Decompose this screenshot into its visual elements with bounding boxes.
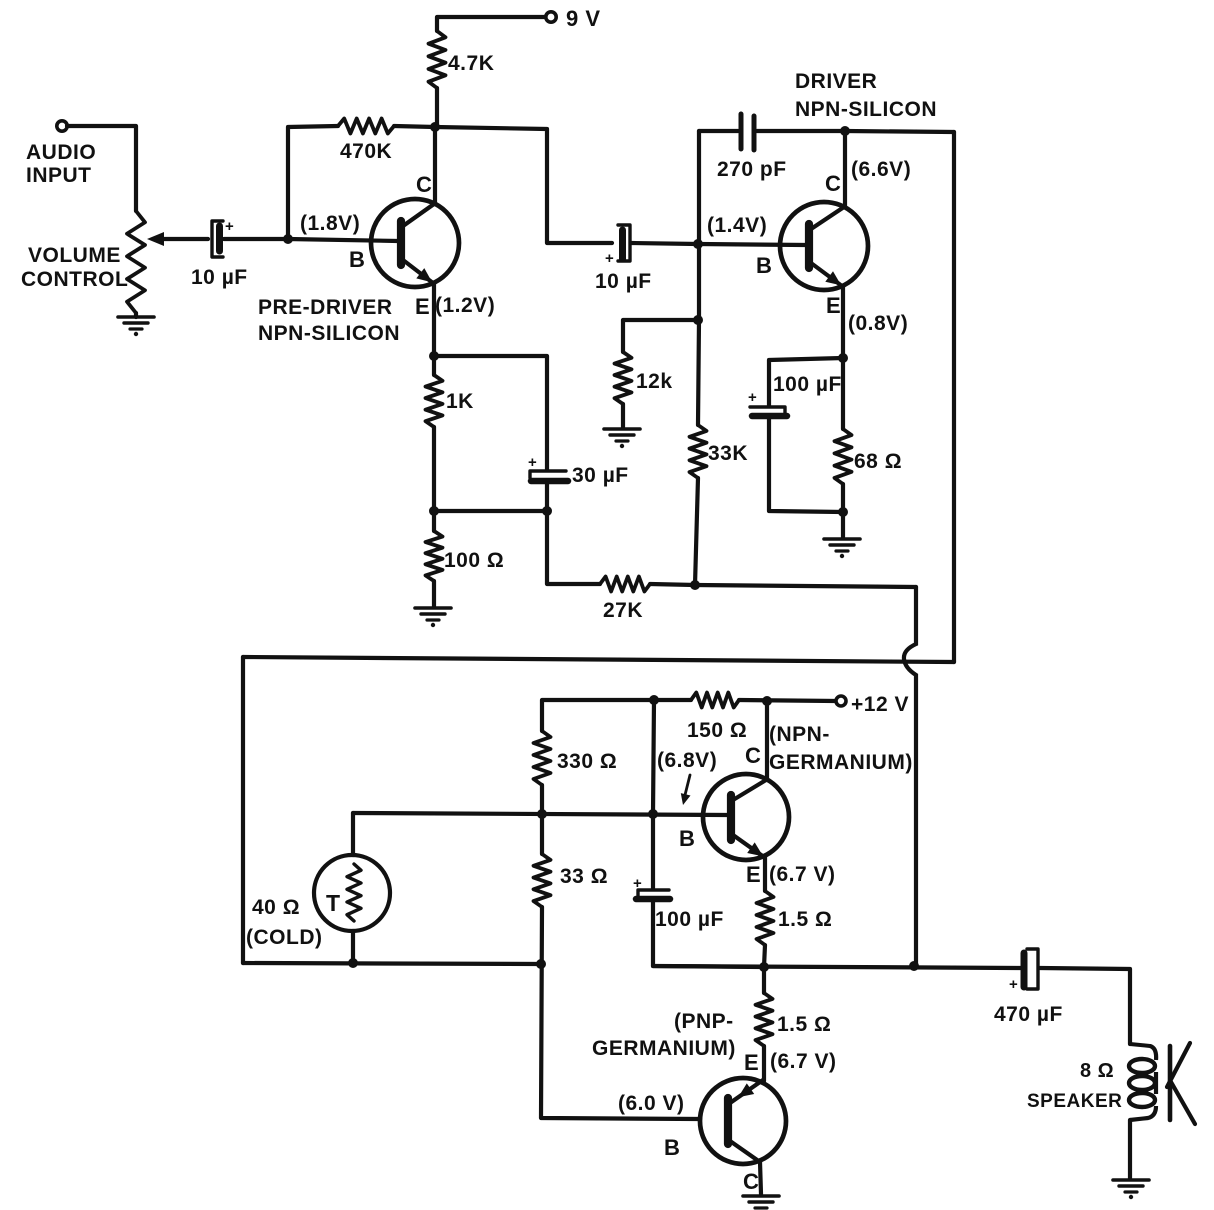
wire C6 to output rail [653,902,763,967]
wire to 100uF bypass [769,358,843,406]
svg-text:(COLD): (COLD) [246,926,322,949]
wire 33K to 27K node [695,478,698,585]
speaker cone symbol [1168,1046,1173,1120]
svg-text:100 Ω: 100 Ω [444,549,504,572]
svg-text:NPN-SILICON: NPN-SILICON [258,322,400,345]
svg-text:GERMANIUM): GERMANIUM) [592,1037,736,1060]
capacitor C6 100uF (bootstrap) [638,890,669,898]
svg-text:PRE-DRIVER: PRE-DRIVER [258,296,393,319]
svg-text:330 Ω: 330 Ω [557,750,617,773]
wire 30uF node down to 27K [547,511,600,584]
Q4 collector wire to ground [760,1162,761,1194]
svg-text:1.5 Ω: 1.5 Ω [777,1013,831,1036]
9V supply terminal [546,12,556,22]
ground under Q4 collector [743,1194,779,1198]
node driver collector junction [840,126,850,136]
svg-text:(6.6V): (6.6V) [851,158,911,181]
wire driver base node up to 270pF [697,131,701,244]
resistor 1.5 ohm upper [757,891,774,945]
wire Q1 emitter to 30uF [434,356,547,470]
node 150ohm left junction [649,695,659,705]
wire feedback vertical with hop over output-stage wire [904,587,916,964]
svg-text:C: C [743,1169,759,1194]
svg-text:DRIVER: DRIVER [795,70,877,93]
wire lower junction left to emitter chain [434,509,547,513]
svg-text:27K: 27K [603,599,643,622]
resistor 470K [338,119,394,134]
svg-text:33 Ω: 33 Ω [560,865,608,888]
svg-text:B: B [349,247,365,272]
svg-text:4.7K: 4.7K [448,52,494,75]
svg-text:SPEAKER: SPEAKER [1027,1091,1122,1112]
svg-text:12k: 12k [636,370,673,393]
wire output-stage top edge [243,657,954,662]
potentiometer volume control [127,211,145,313]
wire base rail to thermistor [351,813,355,855]
resistor 33K [698,320,699,425]
Q2 collector wire [843,131,847,207]
resistor 12k [615,352,632,404]
svg-text:9 V: 9 V [566,6,601,31]
wire driver collector node to right rail [845,131,954,132]
resistor 4.7K [429,31,446,88]
wire 150 ohm to +12V terminal [739,700,836,701]
svg-text:+: + [633,875,642,892]
wire 30uF to lower junction [545,484,549,511]
thermistor T 40 ohm [314,855,390,931]
wire 4.7K to collector node [435,88,439,127]
svg-text:10 µF: 10 µF [191,266,248,289]
wire 270pF left lead [699,129,738,133]
resistor 1K [432,356,436,375]
ground under 12k [604,427,640,431]
svg-text:B: B [664,1135,680,1160]
wire 27K to 33K node [650,584,695,585]
node 150ohm right junction [762,696,772,706]
resistor 68 ohm [841,358,845,429]
wire driver base node to Q2 base [698,244,806,245]
transistor Q3 NPN-GERMANIUM [703,774,789,860]
wire collector node right then down to 10uF C2 [435,127,612,243]
svg-text:470K: 470K [340,140,392,163]
wire 1K to 100ohm [432,427,436,511]
svg-text:33K: 33K [708,442,748,465]
svg-text:8 Ω: 8 Ω [1080,1060,1114,1082]
svg-text:E: E [744,1050,759,1075]
svg-text:+: + [605,250,614,267]
resistor 33 ohm [540,814,544,854]
svg-text:100 µF: 100 µF [773,373,842,396]
wire 1.5 ohm upper to output rail [764,945,765,967]
wire thermistor to output rail [351,931,355,963]
speaker voice coil [1130,1044,1150,1046]
Q3 emitter wire [763,857,767,891]
wire driver base node down to 12k junction [697,244,701,320]
capacitor C3 270pF [739,114,744,149]
svg-text:B: B [679,826,695,851]
svg-text:E: E [415,294,430,319]
node pre-driver collector junction [430,122,440,132]
node Q1 emitter junction [429,351,439,361]
svg-text:(0.8V): (0.8V) [848,312,908,335]
wire output-stage left edge [241,657,245,963]
resistor 1.5 ohm lower [762,967,766,993]
svg-text:AUDIO: AUDIO [26,141,96,164]
svg-text:(NPN-: (NPN- [769,723,830,746]
wire pot to ground [134,313,138,317]
wire 1.5 ohm lower to Q4 emitter [762,1046,766,1081]
transistor Q2 DRIVER NPN-SILICON [780,202,868,290]
svg-text:(6.8V): (6.8V) [657,749,717,772]
node NPN-G base junction [648,809,658,819]
resistor 100 ohm [432,511,436,531]
node 68 ohm bottom junction [838,507,848,517]
wire 68 ohm to ground [841,484,845,538]
svg-text:+: + [528,454,537,471]
wire 12k branch [623,320,698,352]
svg-text:+12 V: +12 V [851,693,909,716]
ground under 100 ohm [415,606,451,610]
svg-text:270 pF: 270 pF [717,158,787,181]
ground under speaker [1113,1178,1149,1182]
node below 30uF [542,506,552,516]
node driver base junction [693,239,703,249]
wire 100ohm to ground [432,581,436,607]
svg-text:+: + [225,218,234,235]
node feedback wire output junction [909,961,919,971]
base rail to Q3 [353,813,727,815]
audio input terminal [57,121,67,131]
node Q2 emitter junction [838,353,848,363]
transistor Q4 PNP-GERMANIUM [700,1078,786,1164]
wire right rail down to output stage [952,132,956,662]
svg-text:CONTROL: CONTROL [21,268,128,291]
svg-text:(PNP-: (PNP- [674,1010,734,1033]
svg-text:NPN-SILICON: NPN-SILICON [795,98,937,121]
svg-text:100 µF: 100 µF [655,908,724,931]
svg-text:T: T [326,890,341,916]
wire output rail left segment [243,963,541,964]
svg-text:VOLUME: VOLUME [28,244,121,267]
svg-text:B: B [756,253,772,278]
svg-text:E: E [746,862,761,887]
wire 330 ohm to base rail [540,785,544,814]
svg-text:30 µF: 30 µF [572,464,629,487]
svg-text:68 Ω: 68 Ω [854,450,902,473]
wire bias junction down to base rail [653,700,654,814]
wire C2 to driver base node [631,243,698,244]
svg-text:C: C [416,172,432,197]
svg-text:GERMANIUM): GERMANIUM) [769,751,913,774]
wire audio input to volume control [67,126,136,211]
node above 100 ohm [429,506,439,516]
ground under 68 ohm [824,537,860,541]
Q2 emitter wire [841,287,845,358]
svg-text:1.5 Ω: 1.5 Ω [778,908,832,931]
svg-text:(6.7 V): (6.7 V) [769,863,836,886]
node 12k junction [693,315,703,325]
svg-text:150 Ω: 150 Ω [687,719,747,742]
node pre-driver base junction [283,234,293,244]
svg-text:10 µF: 10 µF [595,270,652,293]
ground under volume control [118,315,154,319]
wire top edge of bias network [542,700,691,731]
wire 470K to base-bias branch [288,126,338,239]
wire Q3 base junction to 100uF [651,814,655,889]
svg-text:C: C [745,743,761,768]
node 330 ohm base junction [537,809,547,819]
Q1 collector wire [433,127,437,204]
resistor 27K [600,577,650,592]
resistor 150 ohm [691,693,739,708]
svg-text:+: + [748,389,757,406]
node 27K / 33K junction [690,580,700,590]
wire 9V to 4.7K [437,17,545,31]
node thermistor bottom junction [348,958,358,968]
svg-text:E: E [826,293,841,318]
svg-text:40 Ω: 40 Ω [252,896,300,919]
Q1 emitter wire [432,283,436,356]
wire 270pF to driver collector node [757,129,845,133]
capacitor C5 100uF (driver bypass) [750,407,785,415]
node 33 ohm output-rail junction [536,959,546,969]
wire C1 to base node [224,237,288,241]
wiper arrow of volume control [147,232,164,246]
transistor Q1 PRE-DRIVER NPN-SILICON [371,199,459,287]
svg-text:C: C [825,171,841,196]
wire speaker to ground [1128,1120,1132,1179]
Q3 collector wire [765,701,769,780]
svg-text:1K: 1K [446,390,474,413]
node output rail emitter junction [759,962,769,972]
wire C5 down and right to 68 ohm bottom [769,419,843,512]
wire collector node left to 470K [394,126,435,127]
svg-text:(1.8V): (1.8V) [300,212,360,235]
capacitor C4 30uF [530,471,566,478]
capacitor C1 10uF (input) [212,221,223,257]
resistor 330 ohm [534,731,551,785]
svg-text:470 µF: 470 µF [994,1003,1063,1026]
wire 27K node to feedback drop [695,585,916,587]
wire C7 to speaker [1040,968,1130,1044]
svg-text:(6.0 V): (6.0 V) [618,1092,685,1115]
svg-text:INPUT: INPUT [26,164,92,187]
wire output rail middle segment [653,966,1022,968]
svg-text:(1.4V): (1.4V) [707,214,767,237]
capacitor C2 10uF (interstage) [619,230,626,259]
+12V supply terminal [836,696,846,706]
svg-text:(6.7 V): (6.7 V) [770,1050,837,1073]
svg-text:+: + [1009,976,1018,993]
svg-text:(1.2V): (1.2V) [435,294,495,317]
wire 12k to ground [621,404,625,428]
wire base node to Q1 base [288,239,398,241]
capacitor C7 470uF (output) [1021,953,1028,987]
wire 33 ohm down to PNP base [541,907,700,1119]
